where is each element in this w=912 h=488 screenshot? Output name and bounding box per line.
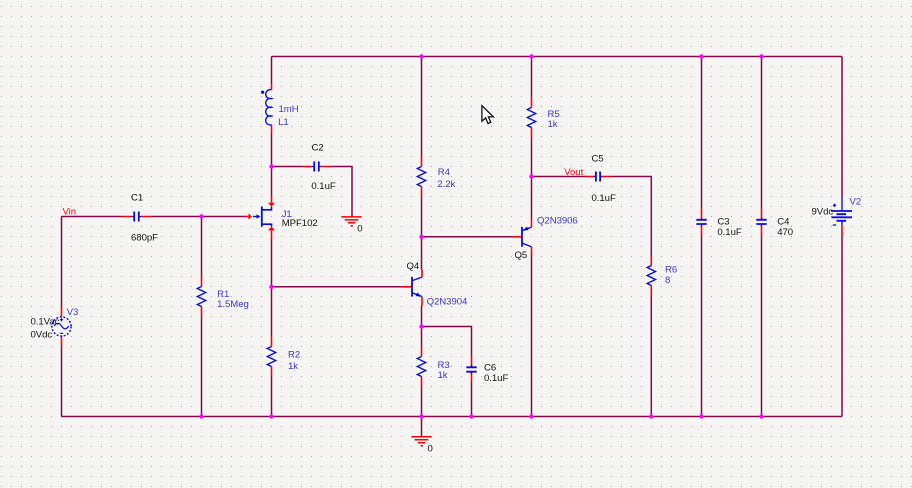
node C1/R1/gate (199, 214, 203, 218)
wire ground B stem (421, 417, 423, 437)
svg-text:0.1uF: 0.1uF (484, 373, 508, 384)
battery V2 (812, 197, 862, 236)
wire C1 to gate (152, 216, 245, 218)
wire bottom rail (62, 416, 843, 418)
node Q4 emitter/R3/C6 (419, 324, 423, 328)
wire Q5 emitter up (531, 177, 533, 220)
node top rail x701 (699, 54, 703, 58)
wire R5 to Vout junction (531, 138, 533, 177)
wire R1 top (201, 217, 203, 277)
wire V2 bottom (841, 236, 843, 417)
node R4/Q4 collector/Q5 base (419, 235, 423, 239)
wire Vin horizontal (62, 216, 123, 218)
wire C4 bottom (761, 236, 763, 417)
resistor R5 (527, 98, 559, 138)
svg-text:R2: R2 (288, 350, 300, 361)
AC source V3 (31, 307, 79, 346)
wire R2 top (271, 287, 273, 337)
wire J1 source down (271, 239, 273, 287)
svg-text:0: 0 (357, 224, 362, 235)
ground 0 (bottom) (412, 437, 433, 455)
wire Q4 base horizontal (272, 286, 402, 288)
svg-text:V2: V2 (850, 197, 862, 208)
svg-text:680pF: 680pF (131, 232, 158, 243)
node L1/C2/J1 (269, 164, 273, 168)
wire R4 top feed (421, 57, 423, 157)
wire R2 bottom (271, 377, 273, 417)
node bottom rail x471 (469, 414, 473, 418)
resistor R1 (197, 277, 249, 317)
svg-text:1k: 1k (548, 119, 558, 130)
svg-text:L1: L1 (278, 117, 289, 128)
wire C3 top feed (701, 57, 703, 209)
svg-text:Vout: Vout (564, 167, 583, 178)
wire R1 bottom (201, 317, 203, 417)
wire R5 top feed (531, 57, 533, 98)
capacitor C1 (123, 193, 159, 244)
wire C2 right to ground (331, 167, 353, 217)
svg-text:2.2k: 2.2k (437, 179, 455, 190)
node bottom rail x701 (699, 414, 703, 418)
capacitor C3 (696, 209, 742, 238)
node top rail x421 (419, 54, 423, 58)
wire top rail (272, 56, 843, 58)
svg-text:0.1uF: 0.1uF (717, 227, 741, 238)
wire R6 bottom (650, 296, 652, 417)
wire C2 left (272, 166, 303, 168)
capacitor C4 (756, 209, 793, 238)
svg-text:Q5: Q5 (515, 250, 528, 261)
svg-text:1k: 1k (438, 370, 448, 381)
svg-text:R4: R4 (438, 167, 451, 178)
svg-text:Q2N3906: Q2N3906 (537, 215, 578, 226)
svg-text:470: 470 (777, 227, 793, 238)
capacitor C2 (303, 143, 336, 193)
resistor R2 (267, 337, 300, 377)
svg-text:0.1uF: 0.1uF (592, 193, 616, 204)
svg-text:R6: R6 (665, 264, 677, 275)
wire C4 top feed (761, 57, 763, 209)
capacitor C5 (586, 154, 616, 204)
transistor Q5 Q2N3906 (513, 215, 578, 261)
svg-text:Q2N3904: Q2N3904 (427, 297, 468, 308)
node J1 source/R2/Q4 base (269, 285, 273, 289)
wire R3 top (421, 327, 423, 347)
node bottom rail x531 (529, 414, 533, 418)
svg-text:0.1Vac: 0.1Vac (31, 317, 60, 328)
svg-text:8: 8 (665, 275, 670, 286)
JFET J1 MPF102 (245, 196, 318, 239)
ground 0 (near C2) (342, 217, 363, 235)
node top rail x761 (759, 54, 763, 58)
svg-text:C2: C2 (312, 143, 324, 154)
svg-text:V3: V3 (67, 307, 79, 318)
svg-text:0.1uF: 0.1uF (311, 181, 335, 192)
svg-text:9Vdc: 9Vdc (812, 206, 834, 217)
svg-text:C6: C6 (484, 362, 496, 373)
wire C6 bottom (471, 382, 473, 417)
resistor R4 (417, 157, 455, 197)
wire Q4 emitter down (421, 306, 423, 327)
inductor L1 (261, 84, 299, 134)
wire C5 to R6 (611, 177, 652, 256)
resistor R6 (647, 256, 677, 296)
node top rail x531 (529, 54, 533, 58)
svg-text:Q4: Q4 (407, 261, 420, 272)
wire Q5 collector down (531, 255, 533, 417)
svg-text:1mH: 1mH (279, 104, 299, 115)
wire Q5 base horizontal (422, 236, 513, 238)
svg-text:Vin: Vin (63, 207, 77, 218)
wire Vout to C5 (532, 176, 586, 178)
wire C3 bottom (701, 236, 703, 417)
svg-text:1k: 1k (288, 361, 298, 372)
capacitor C6 (466, 357, 508, 385)
wire R3 bottom (421, 387, 423, 417)
svg-text:C1: C1 (131, 193, 143, 204)
node R5/Q5 emitter/Vout (529, 174, 533, 178)
wire L1 top feed (271, 57, 273, 85)
mouse cursor (482, 106, 494, 124)
node bottom rail x761 (759, 414, 763, 418)
wire R4 to Q4 collector (421, 197, 423, 270)
svg-text:0Vdc: 0Vdc (31, 329, 53, 340)
wire V2 top feed (841, 57, 843, 198)
transistor Q4 Q2N3904 (401, 261, 468, 307)
node bottom rail x651 (649, 414, 653, 418)
wire Vin corner to V3 (61, 217, 63, 307)
node bottom rail x271 (269, 414, 273, 418)
svg-text:C5: C5 (592, 154, 604, 165)
resistor R3 (417, 347, 449, 387)
wire C6 branch (422, 327, 472, 357)
svg-text:0: 0 (428, 443, 433, 454)
svg-text:MPF102: MPF102 (282, 218, 318, 229)
node bottom rail x201 (199, 414, 203, 418)
svg-text:1.5Meg: 1.5Meg (217, 299, 249, 310)
wire L1 bottom to J1 drain (271, 134, 273, 197)
node bottom rail x421 (419, 414, 423, 418)
wire V3 bottom (61, 346, 63, 417)
